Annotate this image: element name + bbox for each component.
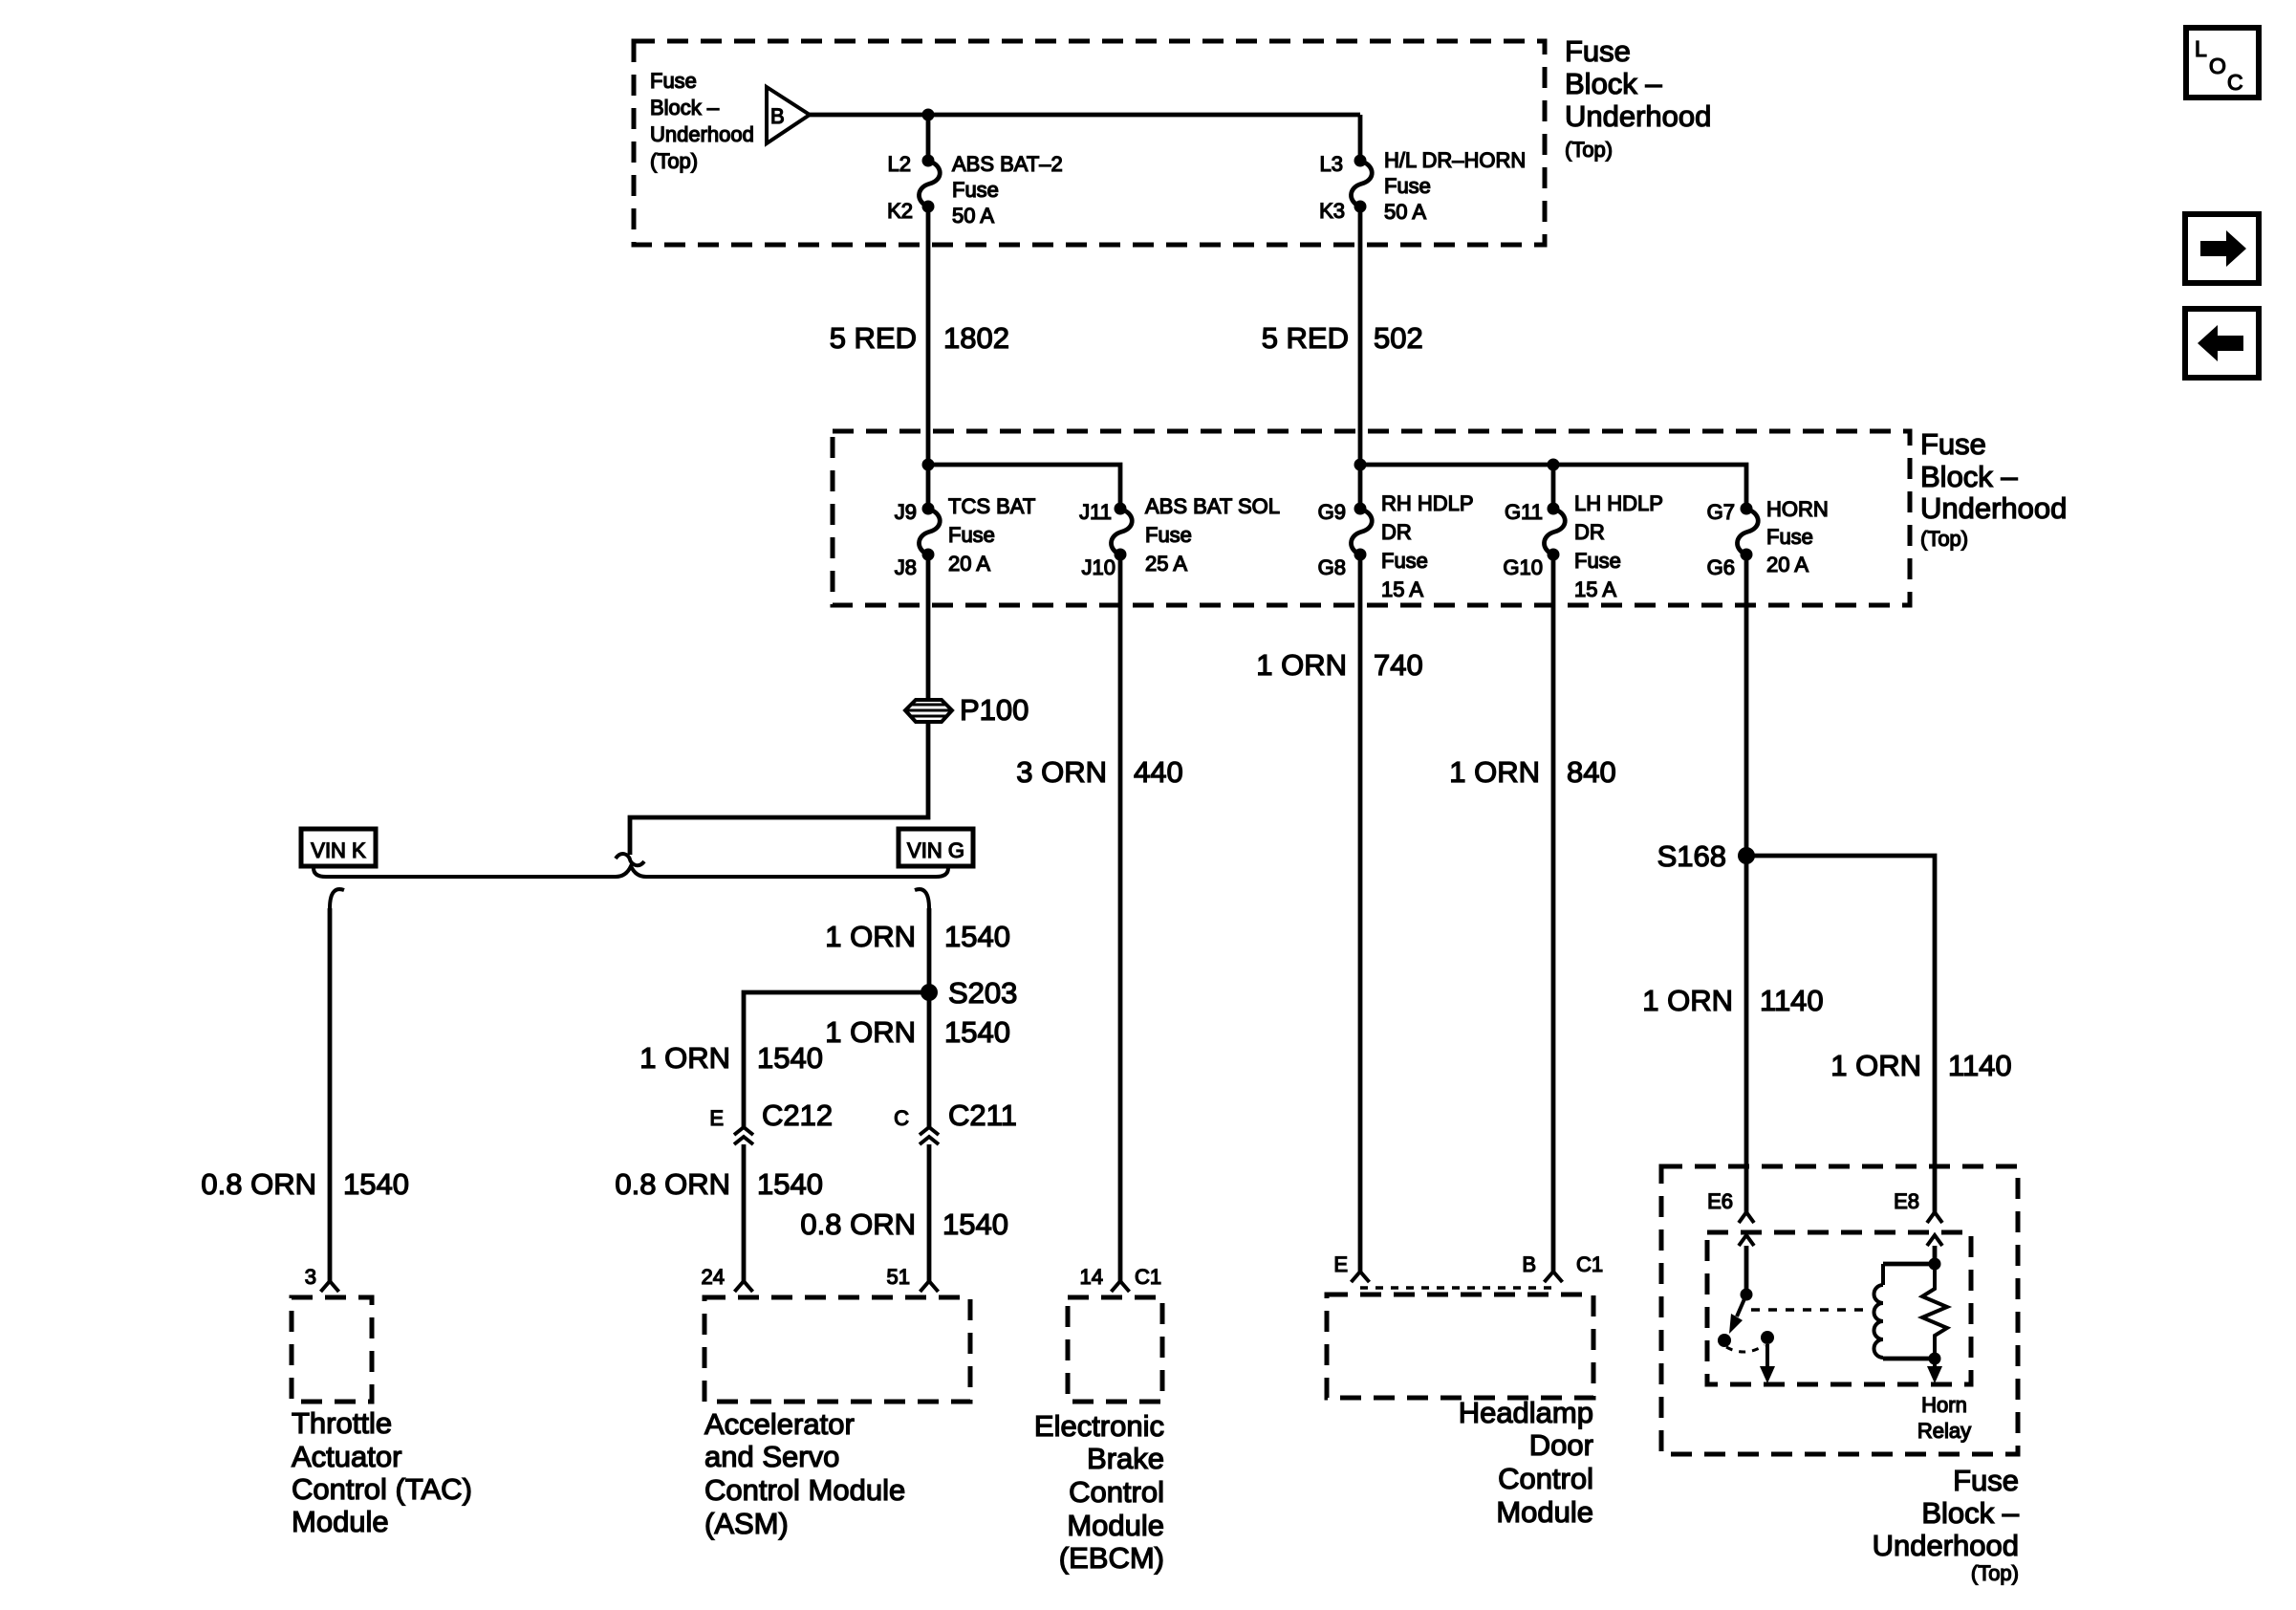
wire from B to L3 drop	[810, 113, 1360, 118]
E6 connector chevron inner	[1739, 1235, 1754, 1246]
wire 1 ORN 1540 below S203	[927, 992, 932, 1127]
svg-text:5 RED: 5 RED	[830, 321, 917, 355]
wire 1 ORN 840 G10 to headlamp B	[1551, 555, 1556, 1272]
svg-text:1 ORN: 1 ORN	[639, 1041, 730, 1075]
wire 1 ORN 740 G8 to headlamp E	[1358, 555, 1363, 1272]
TAC module dashed box	[292, 1297, 372, 1402]
dashed connector line E to B	[1360, 1286, 1553, 1290]
ASM module dashed box	[704, 1297, 970, 1402]
svg-text:20 A: 20 A	[948, 552, 990, 576]
VIN G tag box	[899, 829, 973, 866]
svg-text:502: 502	[1374, 321, 1423, 355]
svg-text:G8: G8	[1318, 555, 1346, 579]
svg-text:(EBCM): (EBCM)	[1059, 1541, 1164, 1575]
fuse RH HDLP DR 15A element G9-G8	[1354, 503, 1367, 515]
svg-text:Fuse: Fuse	[1381, 549, 1428, 573]
svg-text:VIN G: VIN G	[907, 838, 964, 862]
svg-text:L2: L2	[888, 152, 911, 176]
svg-text:Fuse: Fuse	[948, 523, 995, 547]
svg-text:Underhood: Underhood	[1920, 491, 2067, 525]
svg-text:1 ORN: 1 ORN	[825, 920, 916, 953]
svg-text:1540: 1540	[944, 1015, 1010, 1049]
wire junction to L2	[926, 115, 931, 161]
relay switch dashed travel arc	[1726, 1345, 1765, 1352]
svg-text:15 A: 15 A	[1574, 577, 1616, 601]
svg-text:Relay: Relay	[1917, 1419, 1971, 1443]
relay switch output arrow to box edge	[1765, 1344, 1769, 1371]
svg-text:C1: C1	[1576, 1252, 1603, 1276]
svg-text:RH HDLP: RH HDLP	[1381, 491, 1474, 515]
svg-text:ABS BAT–2: ABS BAT–2	[952, 152, 1063, 176]
svg-text:E8: E8	[1894, 1189, 1919, 1213]
LOC legend icon box	[2186, 28, 2259, 98]
svg-text:Module: Module	[1496, 1495, 1593, 1529]
svg-text:0.8 ORN: 0.8 ORN	[800, 1207, 916, 1241]
svg-text:(ASM): (ASM)	[704, 1507, 789, 1540]
feeder junction dot above G9	[1354, 459, 1367, 471]
fuse block underhood bottom dashed box	[1661, 1166, 2018, 1454]
svg-text:P100: P100	[960, 693, 1029, 727]
fuse ABS BAT-2 50A element L2-K2	[922, 155, 935, 167]
fuse H/L DR-HORN 50A element L3-K3	[1354, 155, 1367, 167]
wire S168 to E8 drop	[1746, 856, 1935, 1212]
svg-text:Module: Module	[292, 1505, 389, 1538]
svg-text:1540: 1540	[757, 1167, 823, 1201]
svg-text:Fuse: Fuse	[952, 178, 999, 202]
relay switch common dot	[1741, 1289, 1753, 1301]
relay output arrow E8 side	[1933, 1359, 1937, 1371]
svg-text:1 ORN: 1 ORN	[1449, 755, 1540, 789]
TAC pin 3 chevron	[321, 1281, 339, 1292]
svg-text:S203: S203	[948, 976, 1017, 1010]
inline connector C212 chevrons	[734, 1127, 753, 1135]
svg-text:1 ORN: 1 ORN	[1256, 648, 1347, 682]
svg-text:1 ORN: 1 ORN	[1642, 984, 1733, 1017]
EBCM module dashed box	[1068, 1297, 1162, 1402]
svg-text:Control (TAC): Control (TAC)	[292, 1472, 472, 1506]
svg-text:C: C	[2227, 70, 2243, 95]
svg-text:(Top): (Top)	[1920, 527, 1968, 551]
wire 1 ORN J8 to P100	[926, 555, 931, 699]
svg-text:DR: DR	[1574, 520, 1605, 544]
svg-text:Control: Control	[1498, 1462, 1593, 1495]
svg-text:Block –: Block –	[1920, 460, 2018, 493]
svg-text:Fuse: Fuse	[1384, 174, 1431, 198]
junction on top wire above L2	[922, 109, 935, 121]
wire 0.8 ORN 1540 C212 to ASM pin24	[742, 1144, 747, 1281]
svg-text:E: E	[709, 1106, 724, 1130]
svg-text:DR: DR	[1381, 520, 1412, 544]
relay node dot coil top	[1929, 1258, 1941, 1271]
svg-text:Door: Door	[1529, 1428, 1593, 1462]
svg-text:1540: 1540	[944, 920, 1010, 953]
svg-text:Fuse: Fuse	[1565, 34, 1631, 68]
svg-text:L: L	[2195, 36, 2207, 61]
svg-text:Actuator: Actuator	[292, 1440, 401, 1473]
VIN K branch hook	[330, 889, 344, 908]
svg-text:Electronic: Electronic	[1034, 1409, 1164, 1443]
forward arrow icon box	[2185, 214, 2259, 283]
svg-text:E6: E6	[1707, 1189, 1733, 1213]
svg-text:50 A: 50 A	[952, 204, 994, 228]
fuse ABS BAT SOL 25A element J11-J10	[1115, 503, 1127, 515]
svg-text:O: O	[2209, 54, 2226, 78]
svg-text:B: B	[770, 104, 785, 128]
svg-text:(Top): (Top)	[1971, 1561, 2019, 1585]
feeder junction dot above J9	[922, 459, 935, 471]
svg-text:J11: J11	[1079, 500, 1112, 524]
svg-text:3: 3	[305, 1265, 316, 1289]
svg-text:K3: K3	[1319, 199, 1345, 223]
svg-text:Fuse: Fuse	[1920, 427, 1986, 461]
svg-text:HORN: HORN	[1766, 497, 1829, 521]
svg-text:Underhood: Underhood	[1873, 1529, 2019, 1562]
EBCM pin 14 chevron	[1112, 1281, 1130, 1292]
svg-text:25 A: 25 A	[1145, 552, 1187, 576]
connector P100 symbol	[905, 700, 952, 722]
svg-text:G6: G6	[1707, 555, 1735, 579]
svg-text:50 A: 50 A	[1384, 200, 1426, 224]
headlamp door control module dashed box	[1327, 1295, 1593, 1398]
svg-text:C211: C211	[948, 1099, 1017, 1132]
svg-text:15 A: 15 A	[1381, 577, 1423, 601]
E8 connector chevron inner	[1927, 1235, 1942, 1246]
svg-text:J8: J8	[895, 555, 917, 579]
svg-text:14: 14	[1080, 1265, 1103, 1289]
svg-text:1140: 1140	[1948, 1049, 2012, 1082]
svg-text:1540: 1540	[343, 1167, 409, 1201]
relay coil	[1881, 1264, 1885, 1285]
svg-text:Underhood: Underhood	[1565, 99, 1711, 133]
svg-text:Fuse: Fuse	[1574, 549, 1621, 573]
svg-text:440: 440	[1134, 755, 1183, 789]
svg-text:G7: G7	[1707, 500, 1735, 524]
connector B triangle	[767, 87, 810, 143]
wire 3 ORN 440 J10 to EBCM	[1118, 555, 1123, 1281]
svg-text:0.8 ORN: 0.8 ORN	[615, 1167, 730, 1201]
wire 1 ORN 1540 brace to S203	[927, 908, 932, 992]
svg-text:740: 740	[1374, 648, 1423, 682]
svg-text:Module: Module	[1067, 1509, 1164, 1542]
svg-text:J10: J10	[1082, 555, 1116, 579]
wire top corner to L3	[1358, 115, 1363, 161]
E8 connector chevron outer	[1927, 1212, 1942, 1223]
svg-text:B: B	[1522, 1252, 1536, 1276]
wire branch S203 to C212 drop	[744, 992, 929, 1127]
fuse LH HDLP DR 15A element G11-G10	[1548, 503, 1560, 515]
headlamp pin E chevron	[1352, 1272, 1370, 1282]
wire P100 down and left to option break	[630, 722, 928, 855]
wire 1 ORN 1140 G6 to S168	[1744, 555, 1749, 856]
svg-text:Fuse: Fuse	[650, 69, 697, 93]
relay switch throw dot	[1761, 1331, 1774, 1344]
svg-text:Fuse: Fuse	[1953, 1464, 2019, 1497]
svg-text:E: E	[1333, 1252, 1348, 1276]
fuse HORN 20A element G7-G6	[1741, 503, 1753, 515]
svg-text:Control: Control	[1069, 1475, 1164, 1509]
wire E8 chevron to coil top	[1933, 1246, 1938, 1264]
svg-text:51: 51	[887, 1265, 910, 1289]
svg-text:Block –: Block –	[1921, 1496, 2019, 1530]
wire junction down to G9	[1358, 465, 1363, 509]
relay resistor	[1922, 1264, 1947, 1359]
relay node dot coil bottom	[1929, 1353, 1941, 1365]
svg-text:L3: L3	[1320, 152, 1343, 176]
svg-text:Block –: Block –	[1565, 67, 1662, 100]
splice S203	[921, 984, 938, 1001]
svg-text:Underhood: Underhood	[650, 122, 754, 146]
svg-text:Fuse: Fuse	[1766, 525, 1813, 549]
svg-text:H/L DR–HORN: H/L DR–HORN	[1384, 148, 1526, 172]
feeder wire J9 to J11 drop	[928, 465, 1120, 509]
back arrow icon box	[2185, 309, 2259, 378]
svg-text:Fuse: Fuse	[1145, 523, 1192, 547]
wire E6 chevron to switch	[1744, 1246, 1749, 1295]
VIN K tag box	[301, 829, 376, 866]
svg-text:1540: 1540	[942, 1207, 1008, 1241]
svg-text:1 ORN: 1 ORN	[825, 1015, 916, 1049]
svg-text:Headlamp: Headlamp	[1459, 1396, 1593, 1429]
svg-text:K2: K2	[887, 199, 913, 223]
feeder wire G9 to G7 drop	[1360, 465, 1746, 509]
svg-text:LH HDLP: LH HDLP	[1574, 491, 1663, 515]
svg-text:Block –: Block –	[650, 96, 720, 120]
svg-text:Control Module: Control Module	[704, 1473, 905, 1507]
relay coil bottom connector	[1883, 1357, 1935, 1361]
wire 0.8 ORN 1540 C211 to ASM pin51	[927, 1144, 932, 1281]
wire S168 to E6	[1744, 856, 1749, 1212]
feeder drop to G11	[1551, 465, 1556, 509]
wire junction down to J9	[926, 465, 931, 509]
relay switch blade with arrow	[1737, 1295, 1746, 1316]
fuse block underhood top dashed box	[634, 41, 1545, 245]
svg-text:G9: G9	[1318, 500, 1346, 524]
svg-text:and Servo: and Servo	[704, 1440, 839, 1473]
svg-text:5 RED: 5 RED	[1262, 321, 1349, 355]
svg-text:ABS BAT SOL: ABS BAT SOL	[1145, 494, 1280, 518]
ASM pin 24 chevron	[735, 1281, 753, 1292]
svg-text:G11: G11	[1505, 500, 1543, 524]
svg-text:1802: 1802	[943, 321, 1009, 355]
horn relay dashed box	[1707, 1232, 1971, 1384]
svg-text:Horn: Horn	[1921, 1393, 1967, 1417]
svg-text:(Top): (Top)	[1565, 138, 1613, 162]
svg-text:1140: 1140	[1760, 984, 1824, 1017]
svg-text:C1: C1	[1135, 1265, 1161, 1289]
svg-text:840: 840	[1567, 755, 1616, 789]
svg-text:20 A: 20 A	[1766, 553, 1809, 577]
svg-text:(Top): (Top)	[650, 149, 698, 173]
option break squiggle	[616, 854, 644, 865]
wire 5 RED 1802 segment K2 to J9 junction	[926, 207, 931, 465]
svg-text:TCS BAT: TCS BAT	[948, 494, 1035, 518]
svg-text:J9: J9	[895, 500, 917, 524]
splice S168	[1738, 847, 1755, 864]
svg-text:3 ORN: 3 ORN	[1016, 755, 1107, 789]
inline connector C211 chevrons	[920, 1127, 939, 1135]
svg-text:0.8 ORN: 0.8 ORN	[201, 1167, 316, 1201]
relay switch pivot dot	[1718, 1334, 1731, 1347]
svg-text:C: C	[894, 1106, 909, 1130]
svg-text:1 ORN: 1 ORN	[1830, 1049, 1921, 1082]
fuse block underhood second dashed box	[833, 431, 1910, 605]
svg-text:Brake: Brake	[1087, 1442, 1164, 1475]
svg-text:G10: G10	[1503, 555, 1543, 579]
relay control dashed link	[1751, 1308, 1864, 1312]
fuse TCS BAT 20A element J9-J8	[922, 503, 935, 515]
ASM pin 51 chevron	[921, 1281, 939, 1292]
svg-text:24: 24	[702, 1265, 725, 1289]
headlamp pin B chevron	[1545, 1272, 1563, 1282]
svg-text:S168: S168	[1657, 839, 1726, 873]
wire 0.8 ORN 1540 to TAC	[328, 908, 333, 1281]
relay coil top connector	[1883, 1262, 1935, 1267]
svg-text:C212: C212	[762, 1099, 833, 1132]
svg-text:1540: 1540	[757, 1041, 823, 1075]
svg-text:VIN K: VIN K	[311, 838, 366, 862]
feeder junction dot above G11	[1548, 459, 1560, 471]
VIN G branch hook	[915, 889, 929, 908]
E6 connector chevron outer	[1739, 1212, 1754, 1223]
svg-text:Throttle: Throttle	[292, 1406, 392, 1440]
svg-text:Accelerator: Accelerator	[704, 1407, 855, 1441]
wire 5 RED 502 segment K3 to G9 junction	[1358, 207, 1363, 465]
VIN option brace	[314, 866, 948, 877]
